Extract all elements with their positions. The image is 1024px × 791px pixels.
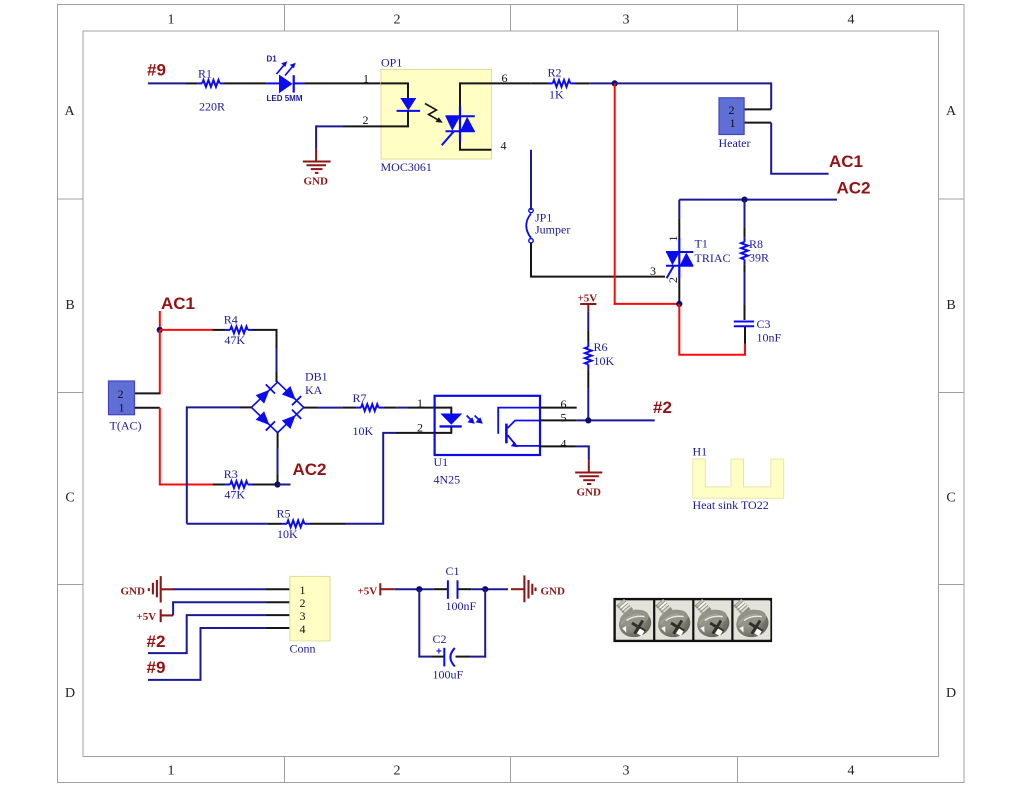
svg-text:1: 1 xyxy=(666,236,680,242)
svg-text:R6: R6 xyxy=(594,340,608,354)
svg-text:2: 2 xyxy=(417,421,423,435)
wire C2 left leg xyxy=(418,589,420,657)
svg-text:GND: GND xyxy=(577,487,602,499)
svg-text:B: B xyxy=(946,298,955,313)
svg-text:Heater: Heater xyxy=(719,136,751,150)
wire OP1 pin6 to R2 xyxy=(491,82,530,84)
ground GND (OP1) xyxy=(303,162,331,173)
diode DB1 lower-left xyxy=(255,411,275,431)
svg-text:1: 1 xyxy=(363,72,369,86)
svg-text:Heat sink TO22: Heat sink TO22 xyxy=(693,498,769,512)
svg-text:1: 1 xyxy=(168,763,175,778)
wire +5V to R6 xyxy=(587,311,589,330)
svg-text:R3: R3 xyxy=(224,467,238,481)
wire R1 to D1 xyxy=(225,82,267,84)
OP1 photon arrow xyxy=(425,104,440,121)
opto-coupler U1 xyxy=(435,396,540,455)
wire R8 from AC2 junction xyxy=(744,200,746,228)
wire junction to Heater corner xyxy=(615,83,772,109)
OP1 internal led xyxy=(381,83,420,126)
U1 pin5 lead xyxy=(540,419,577,421)
svg-text:5: 5 xyxy=(561,411,567,425)
svg-text:MOC3061: MOC3061 xyxy=(381,160,432,174)
svg-text:AC2: AC2 xyxy=(837,179,871,198)
capacitor C3 xyxy=(734,322,754,327)
svg-text:Jumper: Jumper xyxy=(535,223,570,237)
wire +5V to C1 xyxy=(395,588,434,590)
svg-text:KA: KA xyxy=(305,383,323,397)
svg-text:4: 4 xyxy=(848,13,855,28)
svg-text:B: B xyxy=(65,298,74,313)
wire DB1 left to R5 column xyxy=(240,406,251,408)
svg-text:+5V: +5V xyxy=(358,586,378,598)
op-coupler OP1 xyxy=(381,70,492,160)
capacitor C1 xyxy=(448,580,458,599)
svg-text:A: A xyxy=(64,104,75,119)
diode DB1 lower-right xyxy=(282,410,302,430)
junction #2/R6 xyxy=(585,417,591,423)
wire R6 to node #2 xyxy=(587,369,589,388)
wire AC1 to R4 xyxy=(160,329,214,331)
wire node #2 xyxy=(577,419,655,421)
wire R5 riser to U1 pin2 xyxy=(187,523,268,525)
wire AC1 stub xyxy=(159,311,161,330)
svg-text:D: D xyxy=(946,686,956,701)
wire C1 to GND xyxy=(459,588,472,590)
svg-text:H1: H1 xyxy=(693,445,708,459)
svg-text:C: C xyxy=(946,491,955,506)
Heater pin1 lead xyxy=(744,122,771,124)
svg-text:4: 4 xyxy=(300,622,306,636)
wire GND to Conn pin1 xyxy=(173,588,266,590)
svg-text:4: 4 xyxy=(501,139,507,153)
svg-text:2: 2 xyxy=(118,387,124,401)
junction DB1/R3 xyxy=(274,481,280,487)
svg-text:R4: R4 xyxy=(224,313,238,327)
svg-text:A: A xyxy=(946,104,957,119)
T(AC) pin2 lead xyxy=(135,392,160,394)
svg-text:OP1: OP1 xyxy=(381,56,402,70)
connector T(AC) xyxy=(109,381,135,415)
bridge DB1 xyxy=(251,382,303,433)
svg-text:C1: C1 xyxy=(446,564,460,578)
svg-text:GND: GND xyxy=(541,586,566,598)
junction node R2/Heater xyxy=(612,80,618,86)
svg-text:10K: 10K xyxy=(353,424,374,438)
junction T1/gate-net xyxy=(676,301,682,307)
svg-text:47K: 47K xyxy=(224,488,245,502)
wire OP1 pin2 to GND xyxy=(316,125,381,161)
capacitor C2 xyxy=(444,648,455,667)
svg-text:+5V: +5V xyxy=(137,611,157,623)
svg-text:#9: #9 xyxy=(147,658,166,677)
svg-text:T1: T1 xyxy=(695,237,708,251)
svg-text:TRIAC: TRIAC xyxy=(695,251,731,265)
junction AC2/R8 xyxy=(741,197,747,203)
svg-text:R2: R2 xyxy=(548,66,562,80)
U1 internal led xyxy=(435,408,463,433)
svg-text:C2: C2 xyxy=(433,632,447,646)
wire #9 to Conn pin4 xyxy=(148,628,266,680)
svg-text:GND: GND xyxy=(121,586,146,598)
svg-text:R7: R7 xyxy=(353,391,367,405)
svg-text:#9: #9 xyxy=(147,61,166,80)
wire T(AC) pin1 down to R3 xyxy=(160,408,214,485)
svg-text:1: 1 xyxy=(300,583,306,597)
OP1 pin6 internal xyxy=(460,83,491,106)
svg-text:2: 2 xyxy=(394,763,401,778)
svg-text:3: 3 xyxy=(623,763,630,778)
svg-text:10nF: 10nF xyxy=(757,331,782,345)
diode DB1 upper-right xyxy=(282,386,302,406)
connector Conn xyxy=(290,576,330,641)
U1 phototransistor xyxy=(498,408,540,446)
svg-text:2: 2 xyxy=(363,113,369,127)
wire C2 right leg xyxy=(456,656,471,658)
U1 pin6 lead xyxy=(540,407,577,409)
svg-text:AC2: AC2 xyxy=(293,460,327,479)
svg-text:1: 1 xyxy=(168,13,175,28)
wire R1 lead left xyxy=(185,82,197,84)
wire AC2 stub (left) xyxy=(278,484,291,486)
svg-text:100nF: 100nF xyxy=(446,599,477,613)
svg-text:10K: 10K xyxy=(594,354,615,368)
svg-text:+: + xyxy=(436,647,442,658)
resistor R1 xyxy=(197,80,224,87)
svg-text:U1: U1 xyxy=(434,455,449,469)
wire red snubber bottom xyxy=(679,304,745,355)
svg-text:C3: C3 xyxy=(757,317,771,331)
svg-text:39R: 39R xyxy=(749,251,769,265)
wire R4 to DB1 xyxy=(253,330,277,348)
wire pin4 to GND xyxy=(576,446,589,460)
svg-text:3: 3 xyxy=(650,264,656,278)
OP1 internal triac xyxy=(442,106,475,145)
svg-text:AC1: AC1 xyxy=(161,294,195,313)
resistor R3 xyxy=(225,481,252,488)
wire AC1 down to T(AC) pin2 xyxy=(159,330,161,395)
LED D1 xyxy=(267,55,303,104)
wire red to T1 junction xyxy=(614,303,680,305)
wire DB1 right to R7 xyxy=(304,407,317,409)
screws image xyxy=(615,599,771,641)
junction C1/C2 left xyxy=(416,586,422,592)
svg-text:LED 5MM: LED 5MM xyxy=(267,94,303,103)
wire AC2 rail xyxy=(679,199,837,201)
resistor R2 xyxy=(548,80,575,87)
svg-text:2: 2 xyxy=(394,13,401,28)
wire R2 to junction xyxy=(575,82,589,84)
Heater pin2 lead xyxy=(744,108,771,110)
svg-text:1K: 1K xyxy=(549,88,564,102)
svg-text:3: 3 xyxy=(623,13,630,28)
svg-text:4: 4 xyxy=(561,437,567,451)
svg-text:R5: R5 xyxy=(277,507,291,521)
svg-text:#2: #2 xyxy=(653,398,672,417)
svg-text:2: 2 xyxy=(729,103,735,117)
resistor R8 xyxy=(741,237,748,264)
wire R5 to U1 pin2 xyxy=(309,523,345,525)
svg-text:Conn: Conn xyxy=(290,642,316,656)
U1 photon arrows xyxy=(467,416,481,422)
svg-text:C: C xyxy=(65,491,74,506)
jumper JP1 xyxy=(526,208,533,243)
svg-text:1: 1 xyxy=(119,401,125,415)
resistor R5 xyxy=(282,520,309,527)
wire +5V to Conn pin2 xyxy=(173,602,266,615)
svg-text:1: 1 xyxy=(730,116,736,130)
junction C1/C2 right xyxy=(482,586,488,592)
svg-text:DB1: DB1 xyxy=(305,370,328,384)
svg-text:2: 2 xyxy=(666,277,680,283)
wire D1 to OP1 pin1 xyxy=(294,82,305,84)
wire R3 to junction xyxy=(253,484,278,486)
OP1 pin4 internal xyxy=(460,142,491,150)
wire Heater pin1 to AC1 xyxy=(771,123,828,174)
svg-text:+5V: +5V xyxy=(578,293,598,305)
svg-text:10K: 10K xyxy=(277,527,298,541)
svg-text:D: D xyxy=(65,686,75,701)
wire red R2-junction down xyxy=(614,83,616,305)
svg-text:2: 2 xyxy=(300,596,306,610)
resistor R6 xyxy=(585,342,592,369)
resistor R7 xyxy=(356,404,383,411)
wire JP1 to T1 gate pin3 xyxy=(531,243,665,277)
resistor R4 xyxy=(225,327,252,334)
wire #9 to R1 xyxy=(148,82,185,84)
wire OP1 pin4 down to JP1 xyxy=(530,150,532,210)
svg-text:#2: #2 xyxy=(147,632,166,651)
svg-text:4N25: 4N25 xyxy=(434,473,461,487)
triac T1 xyxy=(666,238,693,279)
wire R8 to C3 xyxy=(744,264,746,272)
wire T1 pin2 down xyxy=(678,279,680,304)
diode DB1 upper-left xyxy=(255,384,275,404)
wire #2 to Conn pin3 xyxy=(148,615,266,653)
svg-text:T(AC): T(AC) xyxy=(110,419,142,433)
junction AC1/R4 xyxy=(157,327,163,333)
ground GND (U1) xyxy=(575,473,602,485)
svg-text:47K: 47K xyxy=(224,333,245,347)
svg-text:R1: R1 xyxy=(198,67,212,81)
svg-text:6: 6 xyxy=(561,397,567,411)
ground GND (C1) xyxy=(524,575,535,602)
U1 pin4 lead xyxy=(540,445,576,447)
svg-text:1: 1 xyxy=(417,396,423,410)
wire R7 to U1 pin1 xyxy=(383,407,396,409)
svg-text:R8: R8 xyxy=(749,237,763,251)
svg-text:100uF: 100uF xyxy=(433,668,464,682)
svg-text:GND: GND xyxy=(304,176,329,188)
svg-text:4: 4 xyxy=(848,763,855,778)
svg-text:AC1: AC1 xyxy=(829,152,863,171)
C3 bottom lead xyxy=(744,327,746,344)
T(AC) pin1 lead xyxy=(135,407,160,409)
connector Heater xyxy=(719,98,744,135)
wire DB1 bottom to junction xyxy=(277,433,279,448)
svg-text:220R: 220R xyxy=(199,100,225,114)
wire AC2 down to T1 xyxy=(678,200,680,219)
svg-text:D1: D1 xyxy=(267,55,278,64)
